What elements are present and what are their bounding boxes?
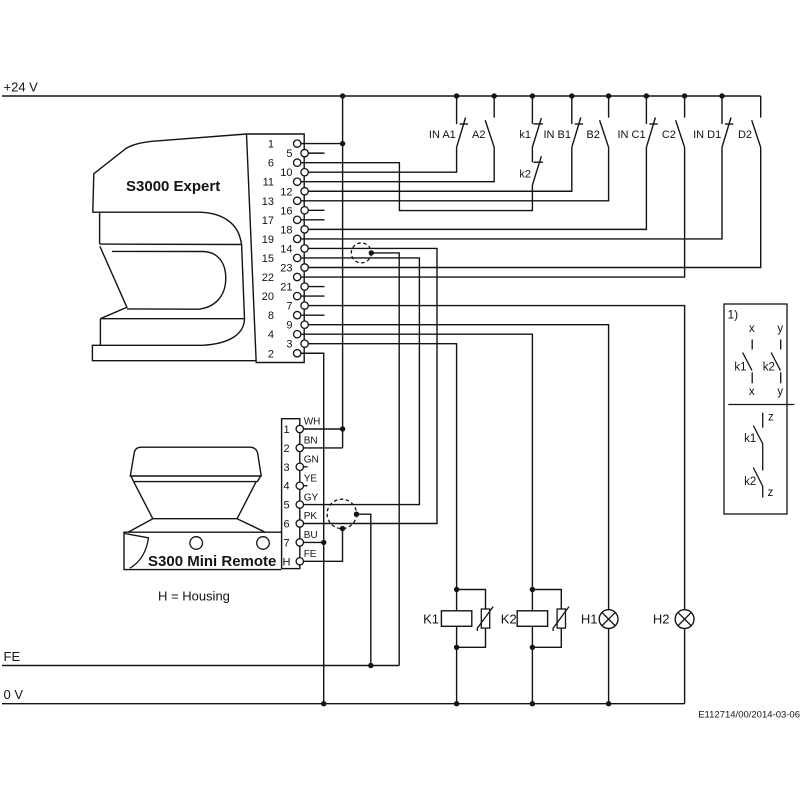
svg-text:1: 1	[268, 139, 274, 151]
+24 V supply rail	[2, 80, 761, 97]
svg-text:IN D1: IN D1	[693, 129, 721, 141]
svg-text:A2: A2	[472, 129, 485, 141]
wire pin 2 to 0V rail	[297, 353, 324, 703]
junction rail B2	[606, 93, 611, 98]
svg-text:4: 4	[268, 329, 274, 341]
svg-text:FE: FE	[304, 549, 317, 560]
FE rail	[2, 649, 399, 666]
stub S300 GN	[300, 466, 308, 468]
junction H1 0V	[606, 701, 611, 706]
svg-text:6: 6	[268, 158, 274, 170]
wire pin 4 to K2	[297, 334, 532, 611]
svg-text:16: 16	[280, 205, 292, 217]
S300 Mini Remote scanner body	[124, 447, 281, 569]
wire pin 15 to S300 GY	[297, 258, 419, 505]
svg-text:E112714/00/2014-03-06: E112714/00/2014-03-06	[698, 709, 800, 720]
junction bottom shield right	[354, 512, 359, 517]
lamp H2	[653, 610, 694, 629]
stub pin 8	[297, 314, 324, 316]
junction top shield	[369, 250, 374, 255]
junction +24V rail/drop	[340, 93, 345, 98]
relay K1 with varistor	[423, 587, 493, 650]
0 V rail	[2, 687, 685, 704]
svg-text:x: x	[749, 386, 755, 398]
svg-text:B2: B2	[586, 129, 599, 141]
svg-text:k2: k2	[763, 361, 775, 373]
stub pin 21	[305, 286, 325, 288]
svg-text:12: 12	[280, 186, 292, 198]
lamp H1	[581, 610, 618, 629]
svg-text:GN: GN	[304, 455, 319, 466]
junction rail IN A1	[454, 93, 459, 98]
contact k2 label	[519, 168, 531, 180]
junction bottom shield bottom	[340, 526, 345, 531]
wire pin 3 to K1	[305, 344, 457, 611]
svg-text:IN A1: IN A1	[429, 129, 456, 141]
svg-text:+24 V: +24 V	[4, 80, 39, 95]
wire pin 22 to C2	[297, 147, 684, 277]
svg-text:IN B1: IN B1	[543, 129, 571, 141]
junction FE rail	[368, 663, 373, 668]
wire S300 BU to 0V	[300, 541, 324, 543]
wire pin 23 to D2	[305, 147, 761, 267]
wire S300 BN	[300, 447, 343, 449]
S300 terminal block	[282, 419, 300, 569]
svg-text:K1: K1	[423, 612, 439, 627]
svg-text:FE: FE	[4, 649, 21, 664]
wire pin 18 to IN C1	[305, 147, 647, 229]
svg-text:6: 6	[283, 519, 289, 531]
svg-text:5: 5	[286, 148, 292, 160]
svg-text:x: x	[749, 323, 755, 335]
relay K2 with varistor	[501, 587, 569, 650]
svg-text:PK: PK	[304, 511, 318, 522]
svg-text:22: 22	[262, 272, 274, 284]
stub pin 5	[305, 152, 325, 154]
stub S300 YE	[300, 485, 308, 487]
junction pin1/+24V	[340, 141, 345, 146]
svg-text:2: 2	[283, 443, 289, 455]
svg-text:S300 Mini Remote: S300 Mini Remote	[148, 553, 276, 570]
junction rail IN D1	[719, 93, 724, 98]
wire pin 10 to IN A1	[305, 147, 457, 172]
wire pin 9 to H1	[305, 325, 609, 704]
wire pin 12 to IN B1	[305, 147, 572, 191]
svg-text:H2: H2	[653, 612, 670, 627]
S3000 pin numbers	[262, 139, 293, 361]
svg-text:D2: D2	[738, 129, 752, 141]
switch IN C1	[617, 96, 657, 147]
wire pin 13 to B2	[297, 147, 608, 200]
legend contact k1 x-x	[734, 323, 754, 398]
S300 wire colour labels	[304, 417, 321, 560]
svg-text:10: 10	[280, 167, 292, 179]
svg-text:H = Housing: H = Housing	[158, 589, 230, 604]
svg-text:20: 20	[262, 291, 274, 303]
legend box	[724, 304, 794, 514]
S300 Mini Remote label	[148, 553, 276, 570]
svg-text:BU: BU	[304, 530, 318, 541]
S3000 Expert label	[126, 178, 220, 195]
S300 pin numbers	[283, 424, 291, 568]
svg-text:WH: WH	[304, 417, 321, 428]
contact k1	[519, 96, 543, 185]
svg-text:9: 9	[286, 320, 292, 332]
svg-text:GY: GY	[304, 492, 319, 503]
svg-text:K2: K2	[501, 612, 517, 627]
switch IN A1	[429, 96, 468, 147]
svg-text:k1: k1	[734, 361, 746, 373]
S3000 pin circles	[294, 140, 309, 357]
svg-text:17: 17	[262, 215, 274, 227]
svg-text:14: 14	[280, 243, 292, 255]
svg-text:H: H	[283, 556, 291, 568]
wire pin 19 to IN D1	[297, 147, 722, 239]
wire pin 6 to k2	[297, 163, 532, 211]
stub pin 17	[297, 219, 324, 221]
svg-text:4: 4	[283, 481, 289, 493]
switch IN D1	[693, 96, 733, 147]
wire pin 11 to A2	[297, 147, 494, 181]
junction rail IN B1	[569, 93, 574, 98]
wire bottom shield to FE rail	[357, 514, 371, 665]
wire K2 to 0V	[531, 626, 533, 703]
junction 0V/BU	[321, 540, 326, 545]
wire pin 7 to H2	[305, 306, 685, 704]
svg-text:z: z	[768, 487, 774, 499]
svg-text:15: 15	[262, 253, 274, 265]
document number	[698, 709, 800, 720]
stub pin 20	[297, 295, 324, 297]
legend contact k2 y-y	[763, 323, 784, 398]
svg-text:y: y	[777, 323, 783, 335]
svg-text:2: 2	[268, 348, 274, 360]
svg-text:C2: C2	[662, 129, 676, 141]
svg-text:y: y	[777, 386, 783, 398]
svg-text:3: 3	[283, 462, 289, 474]
junction rail C2	[682, 93, 687, 98]
H = Housing note	[158, 589, 230, 604]
svg-text:BN: BN	[304, 436, 318, 447]
switch A2	[472, 96, 494, 147]
svg-text:k1: k1	[519, 129, 531, 141]
svg-text:7: 7	[286, 301, 292, 313]
svg-text:1): 1)	[728, 307, 739, 321]
wire S300 FE to shield	[300, 529, 343, 562]
wire pin 14 to S300 PK	[300, 248, 437, 523]
svg-text:1: 1	[283, 424, 289, 436]
S300 pin circles	[296, 425, 303, 565]
stub pin 16	[305, 209, 325, 211]
junction rail A2	[492, 93, 497, 98]
legend contacts k1 k2 series z	[744, 412, 774, 500]
switch B2	[586, 96, 608, 147]
svg-text:5: 5	[283, 500, 289, 512]
switch IN B1	[543, 96, 583, 147]
wire top shield to FE rail	[371, 253, 399, 666]
svg-text:YE: YE	[304, 473, 318, 484]
wire S300 WH to +24V drop	[300, 428, 343, 430]
svg-text:8: 8	[268, 310, 274, 322]
cable shield (EFI at S300)	[327, 499, 356, 528]
cable shield (EFI at S3000)	[351, 243, 371, 263]
switch D2	[738, 96, 761, 147]
junction K1 0V	[454, 701, 459, 706]
svg-text:k1: k1	[744, 433, 756, 445]
junction rail IN C1	[644, 93, 649, 98]
switch C2	[662, 96, 685, 147]
S3000 Expert scanner body	[92, 134, 256, 361]
svg-text:19: 19	[262, 234, 274, 246]
svg-text:0 V: 0 V	[4, 687, 24, 702]
svg-text:23: 23	[280, 262, 292, 274]
svg-text:k2: k2	[519, 168, 531, 180]
svg-text:S3000 Expert: S3000 Expert	[126, 178, 220, 195]
svg-text:21: 21	[280, 282, 292, 294]
svg-text:k2: k2	[744, 476, 756, 488]
junction 0V rail	[321, 701, 326, 706]
svg-text:z: z	[768, 412, 774, 424]
svg-text:3: 3	[286, 339, 292, 351]
junction K2 0V	[530, 701, 535, 706]
svg-text:18: 18	[280, 224, 292, 236]
wire +24V drop to pin1/WH/BN	[342, 96, 344, 448]
wire K1 to 0V	[456, 626, 458, 703]
junction rail k1	[530, 93, 535, 98]
svg-text:13: 13	[262, 196, 274, 208]
junction WH/+24V	[340, 426, 345, 431]
wire pin 1 to +24V drop	[297, 143, 342, 145]
svg-text:7: 7	[283, 537, 289, 549]
svg-text:11: 11	[263, 177, 274, 189]
S3000 terminal block	[247, 134, 305, 363]
svg-text:IN C1: IN C1	[617, 129, 645, 141]
svg-text:H1: H1	[581, 612, 598, 627]
